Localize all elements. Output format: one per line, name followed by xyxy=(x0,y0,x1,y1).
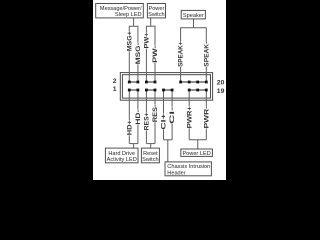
wire SPEAK+ to pin14 xyxy=(180,42,182,83)
svg-text:Switch: Switch xyxy=(142,157,158,163)
svg-text:Power LED: Power LED xyxy=(182,151,210,157)
label HD+ knockout xyxy=(126,120,132,135)
svg-text:Header: Header xyxy=(167,170,185,176)
wire RES+ from pin5 to bracket xyxy=(145,90,147,144)
wire HD- from pin3 to bracket xyxy=(137,90,139,144)
wire PW+ to pin6 xyxy=(145,32,147,82)
svg-text:HD+: HD+ xyxy=(126,120,133,135)
wire RES- from pin7 to bracket xyxy=(154,90,156,144)
box Power LED xyxy=(181,149,213,156)
wire PWR bracket xyxy=(189,139,206,141)
header outer rect xyxy=(120,73,212,101)
header inner rect xyxy=(122,75,210,98)
svg-text:Hard Drive: Hard Drive xyxy=(108,151,135,157)
svg-text:CI-: CI- xyxy=(169,107,176,124)
svg-text:SPEAK-: SPEAK- xyxy=(203,42,210,67)
white panel background xyxy=(93,0,226,180)
svg-text:Power: Power xyxy=(148,6,164,12)
svg-text:PWR-: PWR- xyxy=(203,106,210,128)
svg-text:HD-: HD- xyxy=(135,110,142,125)
svg-text:Sleep LED: Sleep LED xyxy=(115,12,142,18)
box Hard Drive Activity LED xyxy=(105,148,138,163)
svg-text:PW-: PW- xyxy=(152,46,159,63)
wire CI bracket xyxy=(164,139,173,141)
wire HD bracket xyxy=(129,143,138,145)
wire MSG- to pin4 xyxy=(137,43,139,83)
svg-text:Switch: Switch xyxy=(148,12,164,18)
svg-text:MSG+: MSG+ xyxy=(126,31,133,51)
wire PWR+ from pin15 to bracket xyxy=(188,90,190,140)
box Power Switch xyxy=(147,4,165,18)
svg-text:2: 2 xyxy=(113,78,117,85)
wire PWR bracket stub xyxy=(197,140,199,149)
box Reset Switch xyxy=(141,148,159,163)
box Message/Power/Sleep LED xyxy=(96,4,144,18)
label PW- knockout xyxy=(152,46,158,63)
pin group links top row xyxy=(129,82,206,90)
wire MSG bracket xyxy=(129,26,138,42)
label PWR- knockout xyxy=(203,106,209,128)
label MSG- knockout xyxy=(135,43,141,65)
svg-text:1: 1 xyxy=(113,86,117,93)
pins top row xyxy=(128,81,208,92)
label MSG+ knockout xyxy=(126,31,132,51)
label HD- knockout xyxy=(135,110,141,125)
wire HD bracket stub xyxy=(133,144,135,149)
box Chassis Intrusion Header xyxy=(165,162,211,176)
wire RES bracket xyxy=(146,143,155,145)
label PW+ knockout xyxy=(144,33,150,49)
svg-text:Reset: Reset xyxy=(143,151,158,157)
label CI+ knockout xyxy=(161,114,167,130)
pins bottom row xyxy=(128,89,131,92)
svg-text:RES-: RES- xyxy=(152,105,159,123)
wire MSG bracket stub xyxy=(133,18,135,26)
wire PWR- from pin19bot to bracket xyxy=(205,90,207,140)
wire PW bracket stub xyxy=(150,18,152,26)
wire SPEAK bracket xyxy=(181,28,207,42)
label SPEAK+ knockout xyxy=(178,42,184,67)
label RES- knockout xyxy=(152,105,158,123)
wire SPEAK- to pin20top xyxy=(205,42,207,83)
svg-text:RES+: RES+ xyxy=(144,112,151,130)
pin group links bottom row xyxy=(129,89,138,91)
wire RES bracket stub xyxy=(150,144,152,149)
svg-text:PWR+: PWR+ xyxy=(186,106,193,128)
wire MSG+ to pin2 xyxy=(128,31,130,82)
svg-text:PW+: PW+ xyxy=(144,33,151,49)
wire SPEAK bracket stub xyxy=(192,19,194,28)
label RES+ knockout xyxy=(144,112,150,130)
svg-text:MSG-: MSG- xyxy=(135,43,142,65)
wire HD+ from pin1 to bracket xyxy=(128,90,130,144)
wire PW- to pin8 xyxy=(154,45,156,82)
svg-text:CI+: CI+ xyxy=(161,113,168,129)
svg-text:Message/Power/: Message/Power/ xyxy=(100,6,142,12)
svg-text:Chassis Intrusion: Chassis Intrusion xyxy=(167,164,210,170)
label SPEAK- knockout xyxy=(203,42,209,67)
wire CI- from pin11 to bracket xyxy=(171,90,173,140)
box Speaker xyxy=(181,10,205,19)
svg-text:20: 20 xyxy=(217,80,225,87)
svg-text:19: 19 xyxy=(217,88,225,95)
wire CI+ from pin9 to bracket xyxy=(163,90,165,140)
svg-text:Speaker: Speaker xyxy=(183,13,204,19)
label PWR+ knockout xyxy=(186,106,192,128)
wire CI bracket stub xyxy=(167,140,169,162)
wire PW bracket xyxy=(146,26,155,45)
label CI- knockout xyxy=(169,107,175,124)
svg-text:SPEAK+: SPEAK+ xyxy=(178,42,185,67)
svg-text:Activity LED: Activity LED xyxy=(107,157,137,163)
